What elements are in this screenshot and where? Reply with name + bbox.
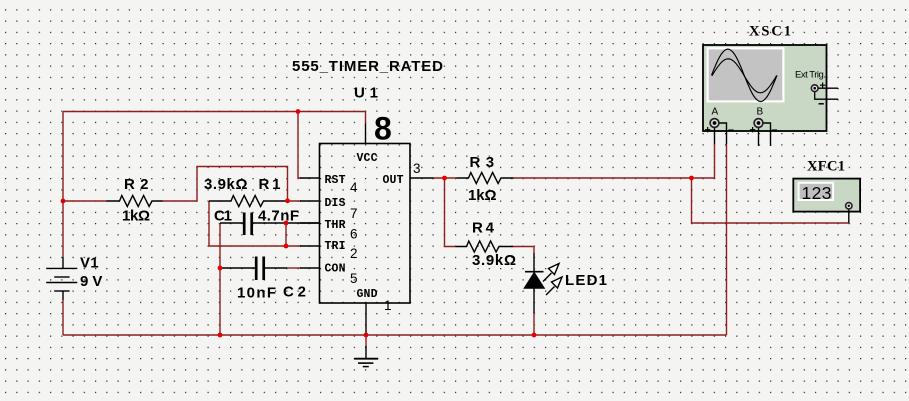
pin 2 TRI stub [300,245,320,247]
COMPONENT SYMBOLS (black) [46,173,562,367]
svg-text:LED1: LED1 [565,272,607,289]
node bus LED junction [532,333,537,338]
svg-text:3.9kΩ: 3.9kΩ [472,252,516,269]
svg-text:1kΩ: 1kΩ [468,187,497,204]
svg-text:2: 2 [350,246,358,261]
wire OUT to R3 [434,177,457,179]
LED arrow 2 [546,287,555,296]
pin 7 DIS stub [300,200,320,202]
terminal A [705,119,734,144]
op-amp U1 555 timer chip [300,111,434,336]
wire R3 to scope A-plus [514,144,715,178]
wire out junction down to R4 [445,178,456,247]
svg-text:9 V: 9 V [80,273,102,290]
svg-text:4: 4 [350,180,358,195]
svg-text:THR: THR [325,219,346,232]
svg-text:10nF: 10nF [237,285,276,302]
svg-text:6: 6 [350,227,358,242]
svg-text:CON: CON [325,263,346,276]
svg-text:7: 7 [350,206,358,221]
wire LED to bus [533,312,535,335]
wire THR TRI tie [285,223,287,246]
node TRI junction [284,244,289,249]
pin 8 VCC stub [365,124,367,144]
svg-text:3.9kΩ: 3.9kΩ [204,176,248,193]
svg-text:OUT: OUT [383,174,404,187]
terminal B [750,119,777,146]
svg-text:VCC: VCC [357,152,378,165]
resistor R1 [209,196,288,207]
svg-text:C1: C1 [214,208,232,225]
wire scope A-minus down to bus [726,144,728,335]
svg-text:1kΩ: 1kΩ [122,208,150,225]
resistor R2 [107,196,163,207]
wire R1 left down to TRI [209,201,301,246]
svg-text:5: 5 [350,271,358,286]
svg-text:TRI: TRI [325,240,346,253]
node THR junction [284,221,289,226]
wire junction to XFC1 [692,178,850,223]
wire ground bus bottom [63,334,727,336]
svg-text:V1: V1 [80,255,99,272]
svg-text:A: A [712,107,719,118]
node OUT / R3 / R4 junction [442,176,447,181]
wire battery negative to bus [62,300,64,335]
svg-text:8: 8 [374,111,392,147]
wire battery positive vertical [62,112,64,258]
terminal Ext Trig [811,83,838,104]
terminal XFC1 [848,209,850,223]
ground symbol [354,346,378,367]
node C2 left junction [218,266,223,271]
svg-text:1: 1 [384,298,392,313]
pin 6 THR stub [300,222,320,224]
svg-text:XFC1: XFC1 [807,159,845,175]
capacitor C1 [220,213,320,236]
capacitor C2 [221,257,287,281]
node bus GND junction [364,333,369,338]
pin 1 GND stub [365,303,367,335]
pin 4 RST stub [300,177,320,179]
wire VCC drop [365,111,367,124]
wire top rail from battery to VCC [63,111,366,113]
resistor R3 [457,173,514,184]
wire RST from top rail junction [298,112,301,179]
svg-text:RST: RST [325,174,346,187]
node top rail / RST junction [296,109,301,114]
LED1 symbol [525,253,563,313]
svg-text:555_TIMER_RATED: 555_TIMER_RATED [292,58,443,75]
svg-text:Ext Trig.: Ext Trig. [795,70,826,81]
wire GND pin below bus [365,335,367,347]
node scope A junction [689,176,694,181]
wire C2 to CON [287,267,301,269]
frequency counter XFC1 [793,159,860,224]
svg-text:4.7nF: 4.7nF [258,208,299,225]
node bus C1 junction [218,333,223,338]
battery V1 symbol [46,257,77,300]
resistor R4 [456,241,514,252]
scope sine trace 2 [712,59,777,93]
svg-text:123: 123 [802,183,832,203]
pin 3 OUT stub [410,177,434,179]
wire R4 to LED [513,247,534,254]
pin 5 CON stub [300,267,320,269]
wire battery to R2 [63,200,107,202]
svg-text:3: 3 [413,161,421,176]
svg-text:B: B [757,107,764,118]
oscilloscope XSC1 [703,24,838,147]
wire R2 over label to R1 right and DIS [163,167,302,202]
scope sine trace 1 [712,49,778,101]
LED arrow 1 [543,273,552,282]
node DIS / R1 / R2 junction [285,198,290,203]
wire C1 left down to bus [219,223,221,335]
node battery / R2 junction [61,199,66,204]
svg-text:GND: GND [357,288,378,301]
svg-text:DIS: DIS [325,197,346,210]
